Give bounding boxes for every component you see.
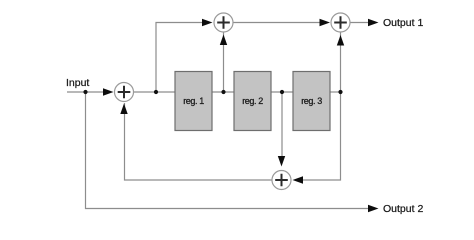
svg-text:reg. 2: reg. 2	[242, 96, 263, 106]
svg-text:Output 1: Output 1	[383, 17, 423, 29]
svg-text:Output 2: Output 2	[383, 203, 423, 215]
svg-text:reg. 1: reg. 1	[183, 96, 204, 106]
svg-text:Input: Input	[66, 77, 89, 89]
svg-text:reg. 3: reg. 3	[301, 96, 322, 106]
